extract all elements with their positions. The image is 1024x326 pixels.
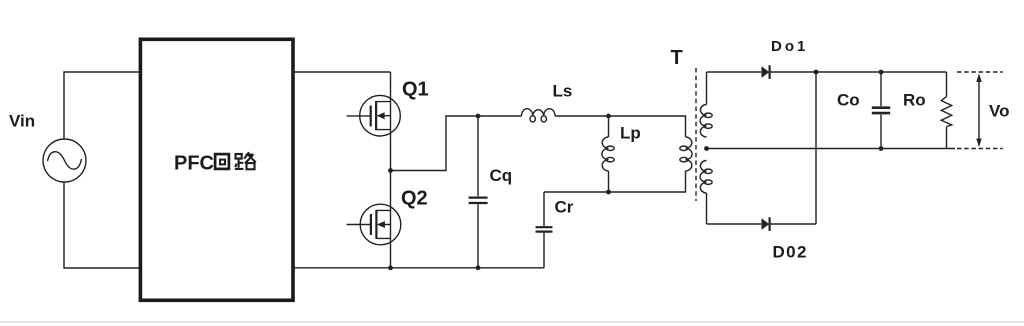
junction Lp top [606, 114, 611, 119]
svg-text:Cr: Cr [555, 198, 574, 217]
wire Vin top [64, 72, 141, 139]
junction Cq bottom [476, 265, 481, 270]
wire Lp bottom to Cr [544, 191, 609, 193]
wire D02 up to output rail [815, 72, 817, 224]
junction Q2 source bottom [388, 265, 393, 270]
wire secondary top to Do1 [707, 71, 762, 73]
junction Lp bottom [606, 190, 611, 195]
svg-text:D02: D02 [773, 243, 808, 262]
label kanji ro (路) [235, 152, 256, 169]
junction Cq top [476, 114, 481, 119]
inductor Ls [522, 109, 556, 122]
transformer T secondary bottom winding [700, 161, 712, 225]
diode D02 [762, 217, 817, 231]
wire secondary bottom to D02 [707, 223, 762, 225]
junction Co top [879, 70, 884, 75]
svg-text:PFC: PFC [174, 153, 214, 175]
svg-text:Q2: Q2 [401, 188, 428, 210]
junction Co bottom [879, 146, 884, 151]
capacitor Co [872, 72, 890, 149]
wire output mid rail (center tap return) [707, 148, 956, 150]
PFC block [140, 39, 293, 300]
capacitor Cr [536, 192, 553, 268]
wire half-bridge node step [391, 116, 522, 171]
transistor Q1 [347, 72, 401, 171]
wire Lp node to transformer primary top [609, 116, 686, 137]
inductor Lp [602, 116, 614, 192]
transformer T primary winding [609, 137, 693, 192]
svg-text:Vin: Vin [9, 112, 35, 131]
wire Vin bottom [64, 182, 141, 268]
transformer T core [695, 68, 697, 201]
svg-text:Q1: Q1 [402, 79, 429, 101]
transistor Q2 [347, 171, 401, 268]
wire bottom rail [294, 267, 545, 269]
capacitor Cq [469, 116, 488, 268]
ac source Vin [43, 139, 86, 182]
svg-text:Ro: Ro [903, 91, 926, 110]
svg-text:Cq: Cq [490, 166, 513, 185]
svg-text:Do1: Do1 [771, 38, 808, 55]
resistor Ro [941, 72, 951, 149]
svg-text:Lp: Lp [620, 124, 641, 143]
transformer T secondary top winding [700, 72, 712, 137]
dashed measurement line bottom [957, 148, 1003, 150]
junction Q1 source / Q2 drain [388, 168, 393, 173]
dashed measurement line top [957, 71, 1003, 73]
wire Ls to Lp node [555, 115, 609, 117]
label kanji kai (回) [215, 154, 229, 169]
diode Do1 [762, 65, 817, 79]
svg-text:Vo: Vo [989, 102, 1009, 121]
svg-text:Ls: Ls [553, 82, 573, 101]
page separator line [0, 321, 1024, 323]
arrow Vo [976, 73, 981, 147]
wire top rail PFC to Q1 drain [294, 71, 391, 73]
svg-text:T: T [671, 47, 683, 69]
wire output top rail [816, 71, 947, 73]
junction transformer center tap [704, 146, 709, 151]
svg-text:Co: Co [837, 91, 860, 110]
junction diode outputs [814, 70, 819, 75]
